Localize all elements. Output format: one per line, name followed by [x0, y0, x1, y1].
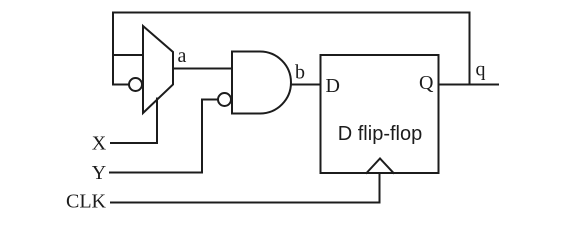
multiplexer U1: [143, 26, 173, 113]
wire: mux upper data input: [113, 54, 143, 56]
wire: node b (AND output to D input): [291, 84, 321, 86]
inversion bubble on AND gate lower input: [218, 93, 231, 106]
svg-text:a: a: [178, 45, 187, 67]
wire: mux inverted data input: [113, 84, 129, 86]
svg-text:D: D: [326, 75, 340, 97]
D flip-flop U3: [321, 55, 439, 173]
wire: node a (mux output to AND gate input): [173, 68, 232, 70]
wire: Y input to AND gate inverted input: [110, 100, 218, 173]
svg-text:D flip-flop: D flip-flop: [338, 123, 422, 145]
inversion bubble on mux lower input: [129, 78, 142, 91]
wire: feedback left vertical: [112, 13, 114, 85]
svg-text:b: b: [295, 62, 305, 84]
clock edge triangle: [367, 159, 394, 174]
svg-text:X: X: [92, 133, 107, 155]
AND gate U2: [232, 52, 291, 114]
svg-text:CLK: CLK: [66, 191, 107, 213]
wire: Q output to node q: [439, 84, 499, 86]
wire: feedback top horizontal: [113, 12, 470, 14]
svg-text:Q: Q: [419, 72, 434, 94]
svg-text:q: q: [476, 59, 486, 81]
wire: feedback right vertical from node q: [469, 13, 471, 85]
wire: CLK input to clock pin: [111, 173, 380, 203]
wire: X input to mux select: [111, 99, 157, 144]
svg-text:Y: Y: [92, 162, 106, 184]
